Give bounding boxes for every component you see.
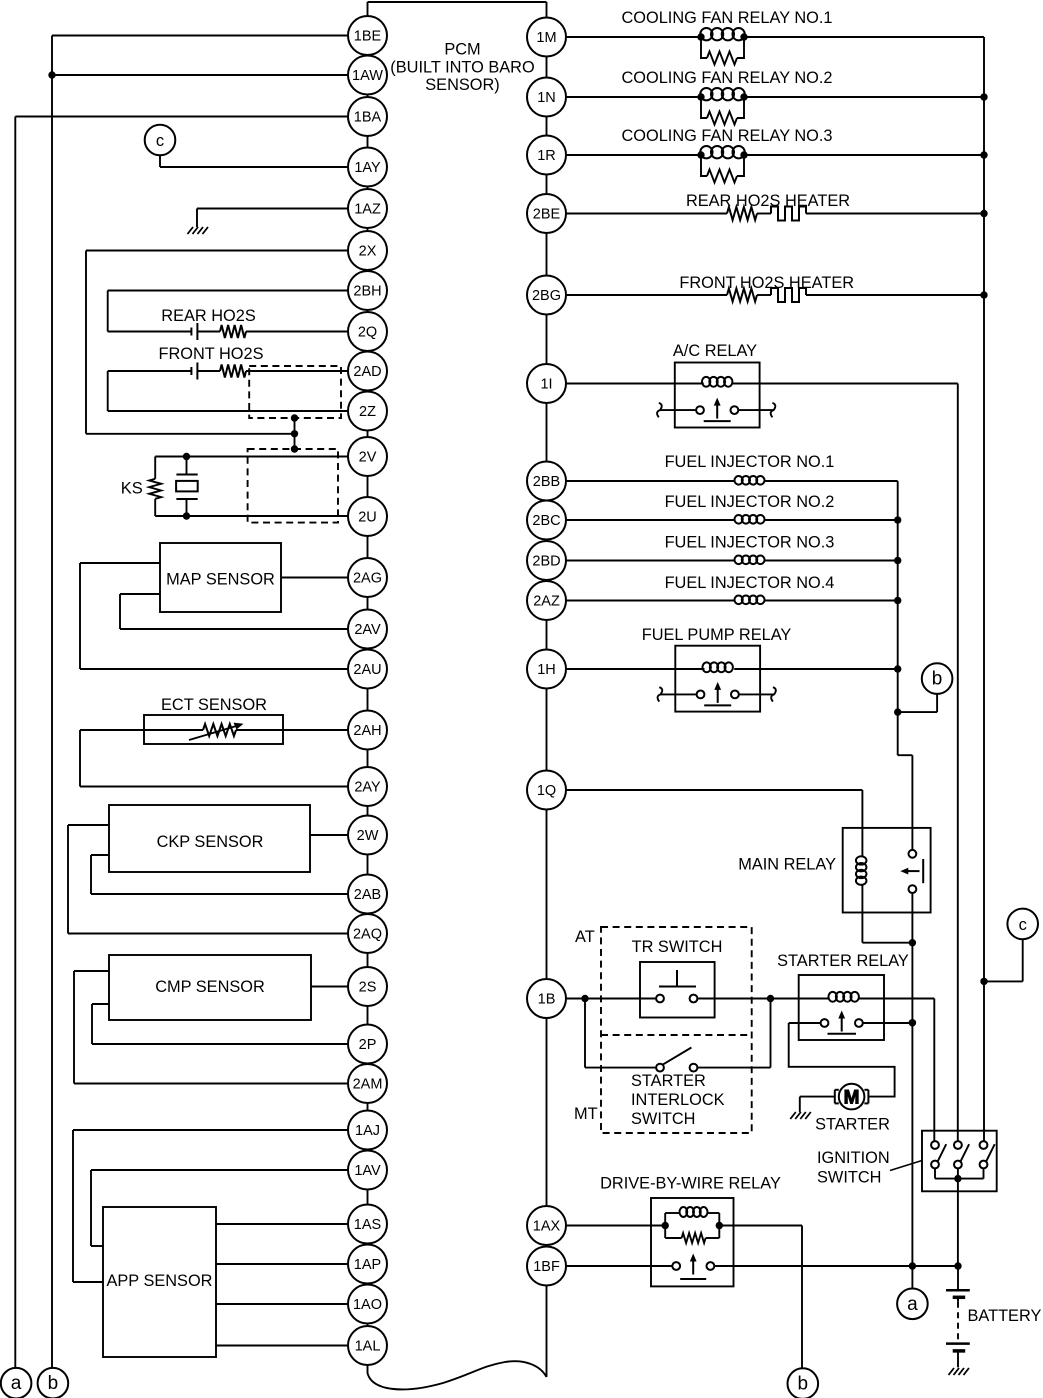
svg-text:REAR HO2S: REAR HO2S <box>161 307 256 325</box>
svg-text:SWITCH: SWITCH <box>817 1169 881 1187</box>
svg-text:1Q: 1Q <box>537 783 556 799</box>
svg-text:MAP SENSOR: MAP SENSOR <box>166 571 275 589</box>
svg-text:CMP SENSOR: CMP SENSOR <box>155 978 265 996</box>
svg-text:FUEL INJECTOR NO.4: FUEL INJECTOR NO.4 <box>665 574 835 592</box>
svg-text:2BG: 2BG <box>532 288 561 304</box>
svg-text:ECT SENSOR: ECT SENSOR <box>161 696 267 714</box>
svg-text:2BB: 2BB <box>533 474 560 490</box>
svg-text:MT: MT <box>574 1105 598 1123</box>
svg-text:1AJ: 1AJ <box>355 1123 380 1139</box>
svg-text:FRONT HO2S HEATER: FRONT HO2S HEATER <box>679 274 854 292</box>
svg-text:STARTER: STARTER <box>815 1116 890 1134</box>
svg-text:1AX: 1AX <box>533 1219 561 1235</box>
svg-text:c: c <box>1019 916 1027 934</box>
svg-text:1AO: 1AO <box>353 1297 382 1313</box>
svg-text:1R: 1R <box>537 148 556 164</box>
svg-text:2BD: 2BD <box>532 554 560 570</box>
svg-text:PCM: PCM <box>444 41 480 59</box>
svg-text:1AS: 1AS <box>354 1217 381 1233</box>
svg-text:SWITCH: SWITCH <box>631 1110 695 1128</box>
svg-text:FUEL INJECTOR NO.2: FUEL INJECTOR NO.2 <box>665 493 835 511</box>
svg-text:2AQ: 2AQ <box>353 927 382 943</box>
svg-text:b: b <box>932 669 943 690</box>
svg-text:2AG: 2AG <box>353 571 382 587</box>
svg-text:COOLING FAN RELAY NO.3: COOLING FAN RELAY NO.3 <box>621 127 832 145</box>
svg-text:INTERLOCK: INTERLOCK <box>631 1091 725 1109</box>
svg-text:2AU: 2AU <box>353 662 381 678</box>
svg-text:1B: 1B <box>538 992 556 1008</box>
svg-text:AT: AT <box>575 928 595 946</box>
svg-text:1AZ: 1AZ <box>354 202 381 218</box>
svg-text:2V: 2V <box>359 450 377 466</box>
svg-text:FUEL INJECTOR NO.3: FUEL INJECTOR NO.3 <box>665 534 835 552</box>
svg-text:STARTER: STARTER <box>631 1072 706 1090</box>
svg-text:2W: 2W <box>357 828 379 844</box>
svg-text:2BH: 2BH <box>353 284 381 300</box>
svg-text:2U: 2U <box>358 510 377 526</box>
svg-text:2S: 2S <box>359 980 377 996</box>
svg-text:COOLING FAN RELAY NO.1: COOLING FAN RELAY NO.1 <box>621 9 832 27</box>
svg-text:TR SWITCH: TR SWITCH <box>632 938 723 956</box>
svg-text:a: a <box>11 1373 22 1394</box>
svg-text:KS: KS <box>121 480 143 498</box>
svg-text:2AB: 2AB <box>354 887 381 903</box>
svg-text:2AY: 2AY <box>354 780 381 796</box>
svg-text:2AZ: 2AZ <box>533 594 560 610</box>
svg-text:2BC: 2BC <box>532 513 560 529</box>
svg-text:a: a <box>907 1294 918 1315</box>
svg-text:SENSOR): SENSOR) <box>425 76 499 94</box>
svg-text:1AP: 1AP <box>354 1257 381 1273</box>
svg-text:2P: 2P <box>359 1037 377 1053</box>
svg-text:2BE: 2BE <box>533 207 561 223</box>
svg-text:2AD: 2AD <box>353 364 381 380</box>
svg-text:STARTER RELAY: STARTER RELAY <box>777 952 909 970</box>
svg-text:FRONT HO2S: FRONT HO2S <box>158 345 263 363</box>
svg-text:1BA: 1BA <box>354 110 382 126</box>
svg-text:REAR HO2S HEATER: REAR HO2S HEATER <box>686 192 850 210</box>
svg-text:1BE: 1BE <box>354 29 382 45</box>
svg-text:b: b <box>798 1374 809 1395</box>
svg-text:FUEL PUMP RELAY: FUEL PUMP RELAY <box>642 626 792 644</box>
svg-text:1H: 1H <box>537 662 556 678</box>
svg-text:MAIN RELAY: MAIN RELAY <box>738 856 836 874</box>
svg-text:1AW: 1AW <box>352 68 383 84</box>
svg-text:(BUILT INTO BARO: (BUILT INTO BARO <box>390 58 534 76</box>
svg-text:2AM: 2AM <box>353 1077 383 1093</box>
svg-text:2Z: 2Z <box>359 404 376 420</box>
svg-text:CKP SENSOR: CKP SENSOR <box>157 833 264 851</box>
svg-text:1BF: 1BF <box>533 1259 560 1275</box>
svg-text:c: c <box>156 132 164 150</box>
svg-text:2AH: 2AH <box>353 723 381 739</box>
svg-text:2Q: 2Q <box>358 325 377 341</box>
svg-text:A/C RELAY: A/C RELAY <box>673 342 757 360</box>
svg-text:1AV: 1AV <box>354 1163 381 1179</box>
svg-text:IGNITION: IGNITION <box>817 1149 890 1167</box>
svg-text:BATTERY: BATTERY <box>968 1307 1042 1325</box>
svg-text:1AY: 1AY <box>354 160 381 176</box>
svg-text:DRIVE-BY-WIRE RELAY: DRIVE-BY-WIRE RELAY <box>600 1175 781 1193</box>
svg-text:1AL: 1AL <box>355 1339 381 1355</box>
svg-text:1N: 1N <box>537 90 556 106</box>
svg-text:FUEL INJECTOR NO.1: FUEL INJECTOR NO.1 <box>665 453 835 471</box>
svg-text:M: M <box>844 1087 860 1108</box>
svg-text:1I: 1I <box>540 377 552 393</box>
svg-text:COOLING FAN RELAY NO.2: COOLING FAN RELAY NO.2 <box>621 69 832 87</box>
svg-text:2X: 2X <box>359 244 377 260</box>
svg-text:2AV: 2AV <box>354 622 381 638</box>
svg-text:b: b <box>48 1373 59 1394</box>
svg-text:1M: 1M <box>536 30 556 46</box>
svg-text:APP SENSOR: APP SENSOR <box>107 1272 213 1290</box>
